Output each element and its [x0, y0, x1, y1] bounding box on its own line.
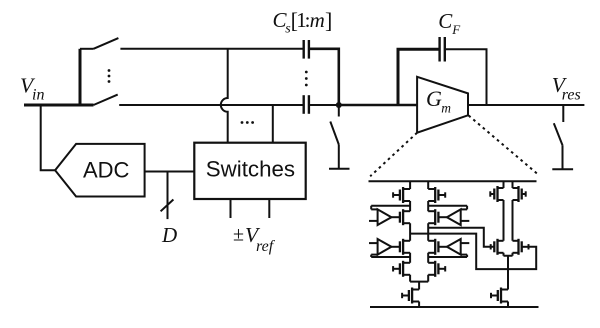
wire left block left stack — [409, 181, 411, 281]
node bus slash — [161, 200, 174, 212]
wire Switches feed from main line — [272, 105, 274, 143]
transistor M8 (NMOS right) — [428, 261, 445, 277]
svg-text:ref: ref — [256, 238, 276, 255]
switch S_reset (summing node to gnd) — [330, 105, 339, 168]
svg-text:m: m — [310, 8, 325, 32]
capacitor Cs bottom unit — [304, 95, 309, 114]
switch S_out (output to gnd) — [554, 105, 564, 169]
wire zoom callout dotted left — [370, 133, 417, 177]
svg-text:Switches: Switches — [206, 157, 295, 182]
node +-Vref label — [233, 223, 276, 255]
node summing junction dot — [336, 102, 342, 108]
wire feedback right side to output — [445, 49, 487, 105]
wire right branch merge to tail — [504, 256, 513, 307]
wire ADC input tap — [41, 105, 55, 170]
switch S_top (input sampling, top) — [80, 38, 118, 49]
wire right branch left stack — [503, 181, 505, 256]
op-amp Gm label — [426, 86, 451, 116]
op-amp A1 (gain-boost) — [369, 206, 410, 225]
node first-stage output (middle) — [410, 233, 428, 235]
transistor M6 (N cascode right) — [428, 239, 438, 255]
wire left block right stack — [427, 181, 429, 281]
node Vres label — [552, 73, 581, 104]
power rail bottom — [370, 306, 539, 308]
block ADC comparator flash — [55, 144, 145, 197]
transistor M1 (PMOS top left) — [393, 187, 410, 203]
wire merge to tail left — [410, 282, 428, 307]
wire digital bus D — [167, 172, 169, 220]
wire Vref stub right — [268, 199, 270, 218]
power rail top — [369, 180, 537, 182]
wire ADC output to Switches — [145, 171, 195, 173]
transistor M10 (out cascode left) — [490, 186, 503, 202]
wire Vin main input segment — [24, 104, 94, 107]
transistor M7 (NMOS left) — [393, 261, 410, 277]
wire Cs bottom right plate to summing node — [309, 104, 339, 106]
svg-text:C: C — [438, 9, 453, 33]
node Vin label — [20, 74, 44, 104]
wire feedback left riser — [398, 49, 440, 105]
op-amp A3 (gain-boost) — [369, 239, 410, 257]
svg-text:in: in — [32, 87, 44, 104]
wire output node loop to M12 gate — [428, 234, 536, 270]
wire main line after bottom switch to Cs bottom plate — [119, 104, 303, 106]
capacitor CF — [440, 37, 445, 62]
wire top sampling line to Cs top plate — [120, 48, 303, 50]
block Switches box — [194, 143, 305, 199]
wire zoom callout dotted right — [469, 116, 539, 175]
transistor M3 (P cascode left) — [400, 209, 410, 225]
capacitor CF label — [438, 9, 461, 37]
capacitor Cs label — [273, 8, 333, 37]
svg-text:±: ± — [233, 224, 244, 246]
wire Vref stub left — [230, 199, 232, 218]
wire Gm output line to Vres — [468, 104, 584, 106]
transistor M5 (N cascode left) — [400, 239, 410, 255]
node vertical dots between Cs units — [305, 71, 308, 87]
wire cascode node to M11 gate — [428, 228, 494, 250]
svg-text:D: D — [161, 223, 177, 247]
wire right branch right stack — [512, 181, 514, 256]
transistor M9 (tail left) — [402, 288, 419, 304]
transistor M14 (tail right) — [491, 288, 508, 304]
transistor M4 (P cascode right) — [428, 209, 438, 225]
wire hop-over crossing at Switches feed — [221, 49, 228, 143]
wire summing node to Gm input — [339, 104, 417, 107]
op-amp A4 (gain-boost) — [428, 239, 469, 257]
op-amp Gm body — [417, 77, 468, 133]
wire riser to switch bank — [79, 49, 82, 105]
wire Cs top right plate to summing node — [309, 49, 339, 104]
svg-text:G: G — [426, 86, 442, 111]
svg-text:]: ] — [325, 8, 332, 33]
switch S_bot (input sampling, bottom) — [94, 95, 118, 105]
transistor M12 (out right) — [513, 239, 529, 255]
svg-text:ADC: ADC — [83, 157, 130, 182]
svg-text:F: F — [451, 22, 461, 37]
transistor M2 (PMOS top right) — [428, 187, 445, 203]
node vertical dots between switches — [108, 69, 111, 83]
capacitor Cs top unit — [304, 40, 309, 59]
transistor M13 (out cascode right) — [513, 186, 526, 202]
svg-text:res: res — [562, 87, 581, 104]
ground bar at output switch — [552, 168, 573, 170]
node horizontal dots between switch feeds — [241, 121, 254, 124]
ground bar at summing switch — [329, 168, 350, 170]
svg-text:m: m — [441, 101, 451, 116]
op-amp A2 (gain-boost) — [428, 206, 469, 225]
transistor M11 (out left) — [494, 239, 503, 255]
